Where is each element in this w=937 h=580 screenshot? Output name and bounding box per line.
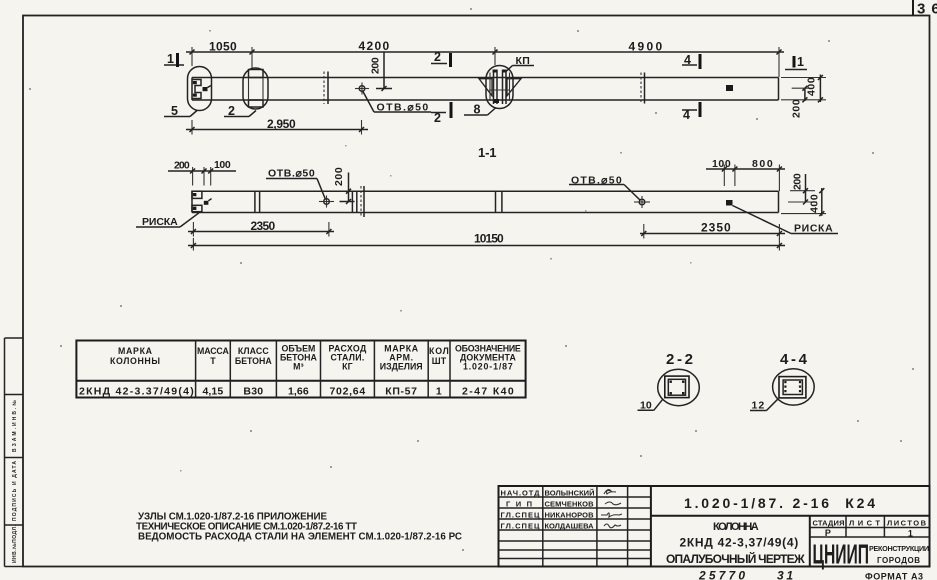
svg-text:2-47 К40: 2-47 К40	[462, 386, 514, 398]
section 4-4 inner square with weld ticks	[783, 380, 802, 395]
svg-text:2КНД 42-3,37/49(4): 2КНД 42-3,37/49(4)	[680, 536, 799, 550]
joint lines pair A section 1-1	[255, 191, 260, 212]
hole ОТВ.50 plan	[355, 83, 369, 95]
detail bubble 2	[243, 68, 268, 109]
svg-text:2,950: 2,950	[267, 117, 296, 131]
hole ОТВ.50 section 1-1 left	[319, 196, 334, 208]
svg-text:ВЗАМ.ИНВ.№: ВЗАМ.ИНВ.№	[12, 400, 18, 452]
dimension 10150	[188, 232, 785, 251]
svg-text:1: 1	[908, 529, 913, 539]
svg-text:РИСКА: РИСКА	[142, 216, 178, 228]
svg-text:ГЛ.СПЕЦ: ГЛ.СПЕЦ	[501, 522, 541, 531]
svg-text:702,64: 702,64	[330, 386, 366, 398]
svg-text:КОЛДАШЕВА: КОЛДАШЕВА	[545, 522, 595, 531]
svg-text:СЕМЧЕНКОВ: СЕМЧЕНКОВ	[545, 500, 595, 509]
right end dimension 200 section 1-1	[788, 173, 817, 205]
label КП	[506, 55, 534, 72]
table header ОБОЗНАЧЕНИЕ ДОКУМЕНТА	[455, 344, 521, 372]
signature row ГИП СЕМЧЕНКОВ	[506, 500, 621, 509]
top dimension 100/800 section 1-1	[706, 158, 785, 191]
svg-text:ИНВ.№ПОДЛ.: ИНВ.№ПОДЛ.	[12, 524, 18, 563]
table data row	[79, 386, 514, 398]
left end keys section 1-1	[192, 191, 212, 212]
section marker 2 bottom	[431, 102, 451, 125]
svg-text:200: 200	[174, 160, 190, 172]
dimension 2350 left	[188, 219, 334, 237]
table header МАССА Т	[197, 346, 229, 366]
svg-text:МАССА: МАССА	[197, 346, 229, 356]
section marker 4 bottom	[682, 102, 700, 122]
svg-text:КГ: КГ	[342, 362, 353, 372]
archive numbers below frame	[698, 569, 923, 580]
column body section 1-1	[192, 191, 779, 212]
svg-text:100: 100	[214, 159, 231, 171]
section 4-4 outer square	[779, 377, 806, 398]
svg-text:В30: В30	[243, 386, 263, 398]
joint lines pair B section 1-1	[352, 191, 356, 212]
svg-text:М³: М³	[293, 362, 304, 372]
svg-text:КП-57: КП-57	[385, 386, 417, 398]
svg-text:КОЛОННЫ: КОЛОННЫ	[110, 356, 162, 366]
svg-text:ИЗДЕЛИЯ: ИЗДЕЛИЯ	[380, 362, 423, 372]
svg-text:4-4: 4-4	[780, 351, 808, 368]
break symbol right	[641, 73, 645, 104]
svg-text:КОЛ: КОЛ	[429, 346, 449, 356]
label РИСКА right	[733, 206, 839, 235]
right end dimension 400 plan	[781, 75, 826, 103]
svg-text:200: 200	[791, 99, 803, 118]
column body plan view	[192, 78, 779, 101]
signature row ГЛ.СПЕЦ НИКАНОРОВ	[501, 511, 623, 520]
name cell КОЛОННА	[666, 516, 810, 567]
svg-text:4,15: 4,15	[203, 386, 224, 398]
note line 3	[138, 532, 462, 543]
joint notch shape in bubble 2	[249, 70, 264, 108]
dimension 2350 right	[640, 221, 785, 239]
svg-text:СТАДИЯ: СТАДИЯ	[813, 519, 845, 528]
corbel embedded part КП bars	[489, 70, 510, 105]
svg-text:Р: Р	[825, 528, 831, 538]
svg-text:1: 1	[167, 52, 174, 66]
section marker 2 top	[431, 50, 451, 67]
svg-text:ОПАЛУБОЧНЫЙ ЧЕРТЕЖ: ОПАЛУБОЧНЫЙ ЧЕРТЕЖ	[666, 551, 805, 566]
document number cell 1.020-1/87.2-16 К24	[651, 495, 930, 516]
svg-text:РЕКОНСТРУКЦИИ: РЕКОНСТРУКЦИИ	[869, 544, 929, 553]
detail bubble 8 corbel	[486, 66, 513, 109]
note line 1	[138, 512, 327, 523]
label 12	[750, 399, 778, 411]
section 4-4 detail circle	[773, 369, 815, 405]
svg-text:10150: 10150	[474, 232, 504, 246]
svg-text:ВОЛЫНСКИЙ: ВОЛЫНСКИЙ	[545, 489, 595, 498]
svg-text:1.020-1/87: 1.020-1/87	[463, 362, 513, 372]
top-right corner reference box with cut number 36	[913, 0, 937, 18]
svg-text:1,66: 1,66	[288, 386, 309, 398]
table header РАСХОД СТАЛИ КГ	[329, 344, 368, 372]
label 10	[638, 399, 663, 411]
title block outline	[499, 486, 930, 567]
left strip rotated caption ИНВ.№ПОДЛ.	[12, 524, 18, 563]
svg-text:1: 1	[797, 55, 804, 69]
hole label ОТВ.⌀50 section right	[569, 175, 641, 201]
svg-text:ШТ: ШТ	[432, 356, 447, 366]
section title 1-1	[478, 145, 497, 160]
svg-text:КЛАСС: КЛАСС	[238, 346, 269, 356]
dimension text 1050	[209, 40, 237, 54]
riska mark square section right	[726, 200, 733, 206]
svg-text:ЛИСТОВ: ЛИСТОВ	[887, 519, 927, 528]
svg-text:ЦНИИП: ЦНИИП	[813, 538, 870, 570]
dimension text 4900	[629, 40, 663, 54]
svg-text:РИСКА: РИСКА	[794, 223, 833, 235]
svg-text:1-1: 1-1	[478, 145, 497, 160]
table header КОЛ ШТ	[429, 346, 449, 366]
svg-text:25770: 25770	[698, 569, 745, 580]
svg-text:2350: 2350	[251, 219, 276, 233]
table header МАРКА КОЛОННЫ	[110, 346, 162, 366]
svg-text:БЕТОНА: БЕТОНА	[235, 356, 272, 366]
section title 4-4	[780, 351, 808, 368]
main dimension line 1050 / 4200 / 4900	[186, 47, 784, 77]
right end dimension 200 plan	[791, 86, 810, 118]
svg-text:36: 36	[917, 1, 937, 18]
svg-text:12: 12	[752, 400, 765, 412]
svg-text:ЛИСТ: ЛИСТ	[849, 519, 880, 528]
corbel gusset triangles	[479, 79, 521, 96]
break symbol left	[324, 72, 328, 105]
table header КЛАСС БЕТОНА	[235, 346, 272, 366]
label 2	[224, 104, 256, 118]
vertical dimension 200 at section hole	[333, 167, 355, 204]
table grid	[76, 341, 525, 398]
svg-text:200: 200	[792, 173, 804, 190]
section 2-2 outer square	[665, 376, 689, 398]
svg-text:800: 800	[752, 158, 773, 170]
svg-text:ВЕДОМОСТЬ РАСХОДА СТАЛИ НА ЭЛЕ: ВЕДОМОСТЬ РАСХОДА СТАЛИ НА ЭЛЕМЕНТ СМ.1.…	[138, 532, 462, 543]
hole label ОТВ.⌀50 plan	[363, 92, 431, 114]
svg-text:400: 400	[809, 194, 821, 213]
svg-text:НИКАНОРОВ: НИКАНОРОВ	[545, 511, 595, 520]
label РИСКА left	[136, 213, 199, 228]
left strip rotated caption ПОДПИСЬ И ДАТА	[12, 461, 18, 521]
break symbol section 1-1	[361, 186, 364, 217]
svg-text:4200: 4200	[359, 39, 390, 53]
svg-text:НАЧ.ОТД: НАЧ.ОТД	[501, 489, 541, 498]
svg-text:1.020-1/87. 2-16 К24: 1.020-1/87. 2-16 К24	[684, 495, 875, 511]
table header ОБЪЕМ БЕТОНА М3	[280, 344, 317, 372]
svg-text:1: 1	[436, 386, 442, 398]
svg-text:Т: Т	[210, 356, 216, 366]
column left end tongue detail	[192, 80, 211, 99]
svg-text:100: 100	[712, 158, 731, 170]
section title 2-2	[666, 351, 693, 368]
section 2-2 inner square with rebar dots	[668, 379, 685, 395]
svg-text:КОЛОННА: КОЛОННА	[713, 521, 759, 533]
svg-text:2КНД 42-3.37/49(4): 2КНД 42-3.37/49(4)	[79, 386, 194, 398]
svg-text:ГИП: ГИП	[506, 500, 532, 509]
svg-text:ГОРОДОВ: ГОРОДОВ	[877, 556, 920, 565]
svg-text:2-2: 2-2	[666, 351, 693, 368]
dimension text 4200	[359, 39, 390, 53]
hole label ОТВ.⌀50 section left	[266, 168, 326, 200]
vertical dimension 200 at plan hole	[370, 52, 393, 91]
hole ОТВ.50 section 1-1 right	[634, 196, 650, 208]
stage cells СТАДИЯ ЛИСТ ЛИСТОВ	[810, 516, 930, 539]
table header МАРКА АРМ.ИЗДЕЛИЯ	[380, 344, 423, 372]
svg-text:ОТВ.⌀50: ОТВ.⌀50	[268, 168, 315, 180]
label 5	[164, 104, 197, 118]
detail bubble 5	[188, 67, 212, 111]
svg-text:31: 31	[777, 569, 793, 580]
section marker 1 right	[785, 55, 807, 70]
svg-text:ПОДПИСЬ И ДАТА: ПОДПИСЬ И ДАТА	[12, 461, 18, 521]
svg-text:200: 200	[370, 57, 382, 74]
svg-text:2: 2	[434, 50, 441, 64]
logo ЦНИИП	[813, 538, 930, 570]
left strip rotated caption ВЗАМ.ИНВ.№	[12, 400, 18, 452]
left margin attachment strip boxes	[5, 338, 24, 567]
joint lines pair C section 1-1	[496, 191, 502, 212]
svg-text:ФОРМАТ А3: ФОРМАТ А3	[865, 572, 923, 580]
section 2-2 detail circle	[658, 369, 700, 405]
note line 2	[136, 522, 357, 533]
svg-text:1050: 1050	[209, 40, 237, 54]
section marker 4 top	[682, 53, 700, 69]
svg-text:200: 200	[333, 167, 345, 186]
signature row НАЧ.ОТД ВОЛЫНСКИЙ	[501, 489, 617, 498]
svg-text:ГЛ.СПЕЦ: ГЛ.СПЕЦ	[501, 511, 541, 520]
right end dimension 400 section 1-1	[781, 188, 826, 216]
dimension 2950	[186, 117, 368, 135]
svg-text:2350: 2350	[701, 221, 731, 235]
svg-text:МАРКА: МАРКА	[118, 346, 154, 356]
section marker 1 left	[164, 52, 184, 67]
riska mark square plan right	[726, 85, 733, 91]
label 8	[464, 103, 496, 117]
top dimension 200/100 section 1-1	[168, 159, 236, 186]
signature row ГЛ.СПЕЦ КОЛДАШЕВА	[501, 522, 622, 531]
title block signature grid	[499, 486, 651, 567]
svg-text:10: 10	[640, 400, 652, 412]
